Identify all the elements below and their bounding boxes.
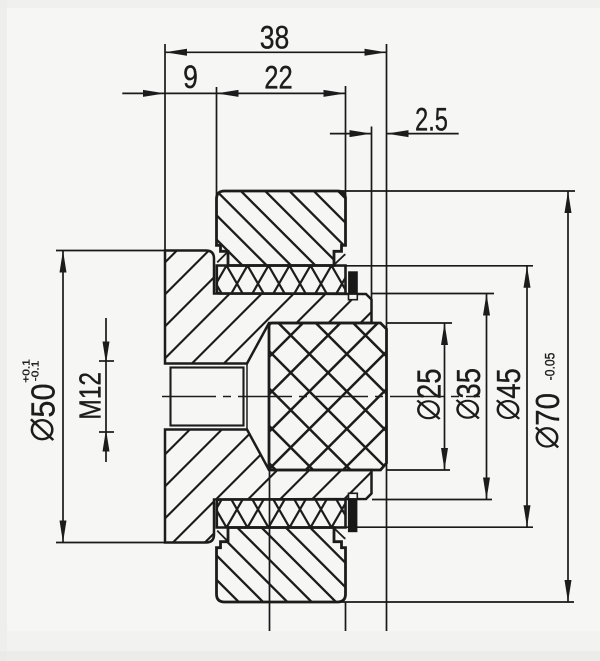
dia50 extension bottom	[56, 542, 165, 544]
M12 top outside arrow	[103, 342, 110, 364]
label 9	[183, 60, 198, 96]
label dia45 (rotated)	[492, 368, 528, 419]
M12 thread bore: major dia end line	[246, 364, 248, 430]
extension line x=216.5	[216, 87, 218, 199]
svg-text:M12: M12	[73, 372, 107, 420]
center axis line	[162, 396, 480, 398]
label dia50 (rotated)	[24, 383, 61, 440]
dia45 extension bottom	[334, 526, 533, 528]
M12 extension stub bottom	[99, 431, 114, 433]
hub upper half	[161, 0, 376, 586]
svg-text:-0.1: -0.1	[30, 361, 41, 382]
dim line 2.5 left part	[330, 133, 372, 135]
band lower left lip	[217, 531, 228, 542]
extension line x=345.5 top	[345, 86, 347, 198]
dia45 dim line	[526, 266, 528, 527]
dia35 dim line	[486, 294, 488, 500]
svg-text:2.5: 2.5	[415, 102, 448, 137]
M12 thread bore: minor dia rectangle	[171, 368, 244, 426]
dia45 top arrow	[524, 266, 531, 288]
label dia35 (rotated)	[452, 368, 488, 419]
svg-text:25: 25	[412, 369, 448, 399]
band upper left lip	[217, 252, 228, 263]
dia35 bottom arrow	[483, 478, 490, 500]
2.5 left outside arrow	[350, 130, 372, 137]
dim line 38	[165, 51, 387, 53]
tire tread lower section	[212, 357, 350, 661]
label dia70 (rotated)	[530, 393, 567, 447]
dia70 top arrow	[565, 191, 572, 213]
dia25 dim line	[444, 323, 446, 470]
dia35 extension top	[372, 293, 494, 295]
dia70 dim line	[567, 191, 569, 602]
dia25 bottom arrow	[441, 448, 448, 470]
seal ring lower (black)	[348, 499, 357, 532]
dia35 top arrow	[483, 294, 490, 316]
dia45 extension top	[334, 265, 533, 267]
extension line x=269.5 bottom	[269, 470, 271, 631]
dim line 9 / 22	[122, 92, 345, 94]
svg-text:35: 35	[452, 368, 488, 398]
dia50 bottom arrow	[60, 521, 67, 543]
dia25 extension bottom	[387, 469, 451, 471]
svg-text:9: 9	[183, 60, 198, 96]
extension line x=386.5 top	[386, 44, 388, 329]
label dia50 tolerance +0.1/-0.1 (rotated)	[21, 359, 41, 383]
extension line x=165	[164, 44, 166, 251]
svg-text:22: 22	[264, 61, 292, 96]
dia35 extension bottom	[372, 499, 492, 501]
22 right arrow	[324, 90, 346, 97]
dia70 bottom arrow	[565, 580, 572, 602]
22 left arrow	[217, 90, 239, 97]
svg-text:45: 45	[492, 368, 528, 398]
38 right arrow	[365, 49, 387, 56]
seal groove upper	[349, 294, 358, 300]
dia70 extension bottom	[337, 601, 574, 603]
extension line x=386.5 bottom	[386, 463, 388, 631]
cross-hatched band upper	[144, 259, 415, 300]
svg-text:50: 50	[24, 383, 61, 417]
dia50 top arrow	[60, 251, 67, 273]
label 22	[264, 61, 292, 96]
dia50 dim line	[62, 251, 64, 543]
label dia25 (rotated)	[412, 369, 448, 420]
cross-hatched band lower	[144, 493, 415, 534]
extension line x=371.5	[371, 127, 373, 324]
dia50 extension top	[56, 250, 165, 252]
label 2.5	[415, 102, 448, 137]
svg-text:-0.05: -0.05	[542, 353, 558, 381]
2.5 right outside arrow	[387, 130, 409, 137]
bushing (cross-hatched center piece)	[265, 160, 391, 623]
seal groove lower	[349, 493, 358, 499]
dia45 bottom arrow	[524, 505, 531, 527]
seal ring upper (black)	[349, 272, 358, 294]
label dia70 tolerance -0.05 (rotated)	[542, 353, 558, 381]
label 38	[260, 20, 290, 56]
dim line 2.5 right part	[387, 133, 459, 135]
extension line x=345.5 bottom	[345, 602, 347, 631]
M12 dim line	[105, 318, 107, 462]
arrowheads	[60, 49, 572, 602]
M12 bottom outside arrow	[103, 430, 110, 452]
svg-text:38: 38	[260, 20, 290, 56]
9 outside-left arrow	[143, 90, 165, 97]
38 left arrow	[165, 49, 187, 56]
band lower right lip chamfer	[334, 528, 346, 538]
dia70 extension top	[337, 190, 575, 192]
M12 extension stub top	[99, 360, 114, 362]
hub lower half	[161, 179, 376, 661]
label M12 (rotated)	[73, 372, 107, 420]
band upper right lip chamfer	[334, 255, 346, 265]
dia25 top arrow	[441, 323, 448, 345]
svg-text:70: 70	[530, 393, 567, 426]
dia25 extension top	[387, 322, 453, 324]
tire tread upper section	[212, 16, 350, 421]
